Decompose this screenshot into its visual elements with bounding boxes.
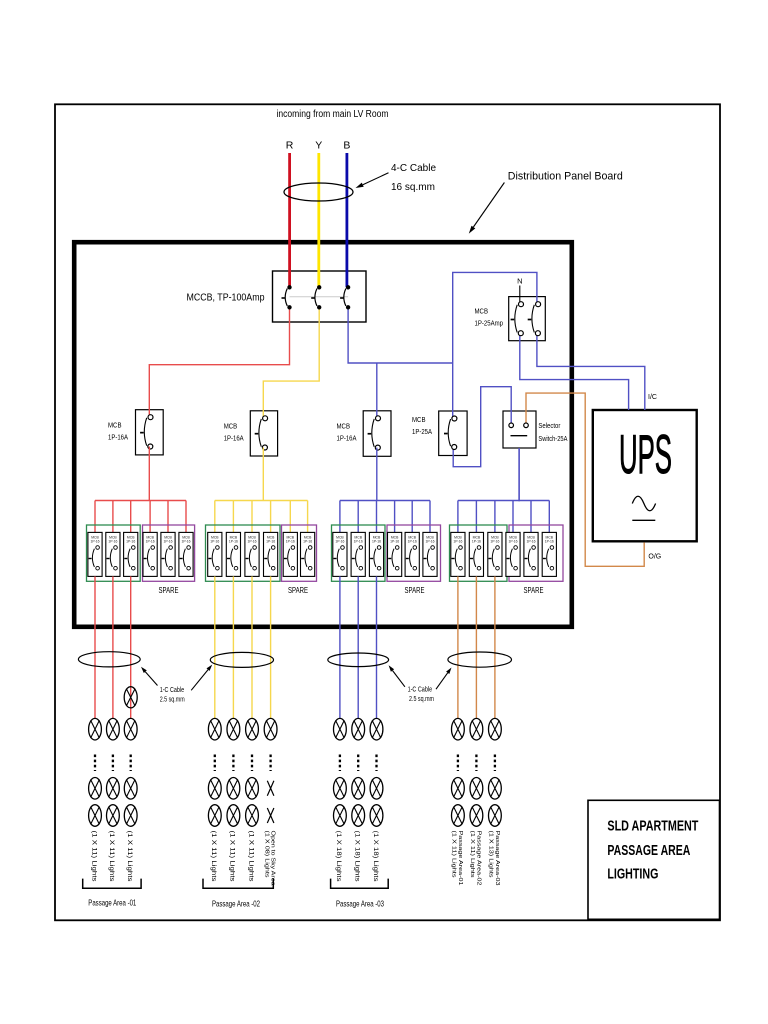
lamp G4-C3-R2 xyxy=(489,778,502,800)
wire drop G3-1 xyxy=(339,501,341,535)
wire drop G3-2 xyxy=(357,501,359,535)
svg-text:1P-16: 1P-16 xyxy=(408,540,417,544)
svg-text:I/C: I/C xyxy=(648,394,657,401)
breaker G4-6 xyxy=(542,532,556,576)
wire drop G3-4 xyxy=(394,501,396,535)
svg-text:1-C Cable: 1-C Cable xyxy=(160,687,185,694)
N stub wire xyxy=(519,286,521,305)
svg-text:SPARE: SPARE xyxy=(288,586,308,595)
svg-text:N: N xyxy=(517,277,522,286)
panel board enclosure xyxy=(74,242,572,627)
breaker G1-6 xyxy=(179,532,193,576)
4-C cable bundle ellipse xyxy=(284,183,353,201)
lamp G4-C3-R1 xyxy=(489,718,502,740)
svg-text:1P-16: 1P-16 xyxy=(163,540,172,544)
breaker G1-4 xyxy=(143,532,157,576)
lamp G1-C1-R2 xyxy=(89,778,102,800)
breaker G3-1 xyxy=(333,532,347,576)
breaker G2-1 xyxy=(208,532,222,576)
svg-text:(1 X 18) Lights: (1 X 18) Lights xyxy=(335,831,342,883)
lamp G1-C2-R2 xyxy=(107,778,120,800)
wire G2 circuit 3 to lamps xyxy=(251,576,253,718)
wire R MCCB to MCB U2 xyxy=(149,307,289,417)
lamp G2-C1-R2 xyxy=(208,778,221,800)
wire drop G2-6 xyxy=(307,501,309,535)
svg-text:Y: Y xyxy=(315,140,322,152)
wire drop G4-6 xyxy=(548,501,550,535)
lamp G4-C2-R1 xyxy=(470,718,483,740)
svg-text:MCB: MCB xyxy=(108,421,122,430)
lamp G1-C3-top xyxy=(124,687,137,708)
svg-text:1P-25Amp: 1P-25Amp xyxy=(475,319,504,328)
continuation dots G4-C2 xyxy=(475,755,477,772)
wire B N-loop to MCB U6 xyxy=(453,272,537,363)
wire B incoming xyxy=(345,153,348,287)
U6 right pole symbol xyxy=(536,302,541,307)
U2 breaker symbol xyxy=(148,415,153,420)
lamp G4-C2-R2 xyxy=(470,778,483,800)
lamp G4-C1-R2 xyxy=(452,778,465,800)
lamp G3-C1-R3 xyxy=(334,805,347,827)
svg-text:1P-16: 1P-16 xyxy=(354,540,363,544)
breaker G2-3 xyxy=(245,532,259,576)
bus G1 xyxy=(95,500,186,502)
group G4 spare enclosure xyxy=(509,525,563,581)
svg-text:Switch-25A: Switch-25A xyxy=(538,434,567,443)
lamp G2-C2-R1 xyxy=(227,718,240,740)
svg-text:(1 X 11) Lights: (1 X 11) Lights xyxy=(90,831,97,883)
svg-text:Passage Area-01: Passage Area-01 xyxy=(457,831,463,886)
arrow to ellipse 4 xyxy=(436,673,448,689)
svg-text:MCB: MCB xyxy=(224,422,238,431)
svg-text:MCB: MCB xyxy=(412,415,426,424)
wire drop G4-3 xyxy=(494,501,496,535)
wire G2 circuit 2 to lamps xyxy=(232,576,234,718)
continuation dots G2-C3 xyxy=(251,755,253,772)
svg-text:Passage Area -03: Passage Area -03 xyxy=(336,900,384,909)
breaker G4-4 xyxy=(506,532,520,576)
breaker G3-3 xyxy=(369,532,383,576)
svg-text:Selector: Selector xyxy=(538,421,560,430)
lamp G3-C1-R2 xyxy=(334,778,347,800)
selector terminal right xyxy=(524,423,529,428)
svg-text:LIGHTING: LIGHTING xyxy=(607,867,658,883)
MCCB pole B xyxy=(346,286,349,289)
breaker G1-5 xyxy=(161,532,175,576)
svg-text:1P-16: 1P-16 xyxy=(90,540,99,544)
lamp G3-C3-R2 xyxy=(370,778,383,800)
wire G3 circuit 1 to lamps xyxy=(339,576,341,718)
breaker G3-2 xyxy=(351,532,365,576)
svg-text:MCB: MCB xyxy=(475,307,489,316)
wire drop G2-3 xyxy=(251,501,253,535)
svg-text:1P-16: 1P-16 xyxy=(146,540,155,544)
wire drop G3-6 xyxy=(429,501,431,535)
MCCB pole Y xyxy=(318,286,321,289)
svg-text:2.5 sq.mm: 2.5 sq.mm xyxy=(160,697,185,704)
UPS sine symbol xyxy=(632,496,655,511)
wire selector output xyxy=(518,448,520,501)
wire Y MCCB to MCB U3 xyxy=(263,307,319,418)
svg-text:1P-16: 1P-16 xyxy=(508,540,517,544)
wire G3 circuit 2 to lamps xyxy=(357,576,359,718)
arrow to ellipse 2 xyxy=(191,670,208,691)
MCCB TP-100Amp box xyxy=(273,271,367,322)
wire drop G2-5 xyxy=(289,501,291,535)
svg-text:SPARE: SPARE xyxy=(159,586,179,595)
bus G3 xyxy=(340,500,430,502)
svg-text:1P-16A: 1P-16A xyxy=(337,434,357,443)
wire drop G2-2 xyxy=(232,501,234,535)
wire drop G4-4 xyxy=(512,501,514,535)
wire G4 circuit 2 to lamps xyxy=(475,576,477,718)
continuation dots G1-C2 xyxy=(112,755,114,772)
svg-text:Passage Area-02: Passage Area-02 xyxy=(475,831,481,886)
breaker G3-5 xyxy=(405,532,419,576)
wire R incoming xyxy=(288,153,291,287)
breaker G2-5 xyxy=(283,532,297,576)
wire drop G3-3 xyxy=(376,501,378,535)
1-C cable ellipse group2 xyxy=(210,652,273,667)
arrow to ellipse 1 xyxy=(145,672,157,686)
wire B drop to MCB U4 xyxy=(376,363,378,418)
svg-text:(1 X 11) Lights: (1 X 11) Lights xyxy=(451,831,457,878)
lamp G4-C1-R3 xyxy=(452,805,465,827)
continuation dots G3-C1 xyxy=(339,755,341,772)
lamp G1-C2-R1 xyxy=(107,718,120,740)
lamp G2-C4-R1 xyxy=(264,718,277,740)
svg-text:B: B xyxy=(343,140,350,152)
wire drop G1-6 xyxy=(185,501,187,535)
svg-text:1P-16A: 1P-16A xyxy=(108,433,128,442)
MCB U2 1P-16A box xyxy=(136,410,164,455)
lamp G4-C3-R3 xyxy=(489,805,502,827)
svg-text:1P-16: 1P-16 xyxy=(286,540,295,544)
wire drop G1-3 xyxy=(130,501,132,535)
wire drop G1-2 xyxy=(112,501,114,535)
wire G1 circuit 3 to lamps xyxy=(130,576,132,718)
wire feed G1 xyxy=(148,447,150,501)
svg-text:MCB: MCB xyxy=(337,422,351,431)
U5 breaker symbol xyxy=(452,416,457,421)
svg-text:1P-16: 1P-16 xyxy=(545,540,554,544)
X mark G2-C4-R2 xyxy=(267,781,274,796)
breaker G1-3 xyxy=(124,532,138,576)
svg-text:SPARE: SPARE xyxy=(524,586,544,595)
group G1 active enclosure xyxy=(87,525,141,581)
svg-text:1P-16: 1P-16 xyxy=(126,540,135,544)
svg-text:1P-16: 1P-16 xyxy=(247,540,256,544)
svg-text:1P-25A: 1P-25A xyxy=(412,427,432,436)
svg-text:PASSAGE AREA: PASSAGE AREA xyxy=(607,843,690,859)
svg-text:4-C Cable: 4-C Cable xyxy=(391,163,436,174)
lamp G3-C2-R3 xyxy=(352,805,365,827)
svg-text:(1 X 11) Lights: (1 X 11) Lights xyxy=(126,831,133,883)
bracket area1 xyxy=(83,879,141,889)
1-C cable ellipse group1 xyxy=(78,652,140,667)
wire G2 circuit 4 to lamps xyxy=(270,576,272,718)
svg-text:(1 X 11) Lights: (1 X 11) Lights xyxy=(247,831,254,883)
svg-text:(1 X 13) Lights: (1 X 13) Lights xyxy=(488,831,494,878)
MCB U6 1P-25Amp box xyxy=(509,297,546,341)
breaker G4-1 xyxy=(451,532,465,576)
lamp G4-C1-R1 xyxy=(452,718,465,740)
MCB U4 1P-16A box xyxy=(363,411,391,457)
wire drop G1-1 xyxy=(94,501,96,535)
svg-text:1P-16: 1P-16 xyxy=(303,540,312,544)
wire Y incoming xyxy=(317,153,320,287)
lamp G4-C2-R3 xyxy=(470,805,483,827)
svg-text:1P-16: 1P-16 xyxy=(526,540,535,544)
svg-text:UPS: UPS xyxy=(619,423,672,485)
svg-text:SPARE: SPARE xyxy=(405,586,425,595)
group G3 active enclosure xyxy=(332,525,386,581)
bracket area3 xyxy=(331,879,389,889)
continuation dots G1-C3 xyxy=(130,755,132,772)
UPS sine underline xyxy=(632,519,655,521)
breaker G4-2 xyxy=(469,532,483,576)
wire G2 circuit 1 to lamps xyxy=(214,576,216,718)
svg-text:(1 X 11) Lights: (1 X 11) Lights xyxy=(229,831,236,883)
breaker G2-4 xyxy=(264,532,278,576)
U4 breaker symbol xyxy=(376,416,381,421)
wire B MCCB to bus xyxy=(348,307,453,363)
breaker G1-2 xyxy=(106,532,120,576)
bus G4 xyxy=(458,500,549,502)
wire U5 to selector input xyxy=(453,387,511,467)
leader arrow to panel board xyxy=(473,183,504,228)
svg-text:Open to Sky Area: Open to Sky Area xyxy=(270,831,276,887)
wire U6 left pole to UPS I/C xyxy=(520,333,629,410)
wire G1 circuit 2 to lamps xyxy=(112,576,114,718)
wire feed G3 xyxy=(376,448,378,501)
lamp G3-C2-R1 xyxy=(352,718,365,740)
svg-text:Passage Area -01: Passage Area -01 xyxy=(88,899,136,908)
svg-text:Distribution Panel Board: Distribution Panel Board xyxy=(508,171,623,183)
svg-text:(1 X 11) Lights: (1 X 11) Lights xyxy=(469,831,475,878)
wire feed G2 xyxy=(262,448,264,501)
title block box xyxy=(588,800,720,919)
X mark G2-C4-R3 xyxy=(267,808,274,823)
U3 breaker symbol xyxy=(263,416,268,421)
breaker G2-6 xyxy=(301,532,315,576)
wire G1 circuit 1 to lamps xyxy=(94,576,96,718)
group G2 active enclosure xyxy=(206,525,281,581)
group G1 spare enclosure xyxy=(143,525,195,581)
continuation dots G3-C3 xyxy=(375,755,377,772)
bus G2 xyxy=(215,500,308,502)
lamp G1-C3-R1 xyxy=(124,718,137,740)
svg-text:Passage Area-03: Passage Area-03 xyxy=(494,831,500,886)
lamp G1-C2-R3 xyxy=(107,805,120,827)
lamp G2-C3-R2 xyxy=(246,778,259,800)
svg-text:1P-16: 1P-16 xyxy=(229,540,238,544)
continuation dots G3-C2 xyxy=(357,755,359,772)
svg-text:1P-16: 1P-16 xyxy=(490,540,499,544)
U6 left pole symbol xyxy=(519,302,524,307)
breaker G4-5 xyxy=(524,532,538,576)
group G2 spare enclosure xyxy=(282,525,317,581)
wire drop G4-1 xyxy=(457,501,459,535)
bracket area2 xyxy=(203,879,273,889)
wire drop G2-1 xyxy=(214,501,216,535)
wire U6 right pole to UPS I/C xyxy=(537,333,645,410)
1-C cable ellipse group3 xyxy=(328,653,389,667)
wire drop G2-4 xyxy=(270,501,272,535)
UPS box xyxy=(593,410,697,541)
lamp G1-C1-R3 xyxy=(89,805,102,827)
breaker G1-1 xyxy=(88,532,102,576)
svg-text:1P-16: 1P-16 xyxy=(472,540,481,544)
svg-text:1P-16: 1P-16 xyxy=(453,540,462,544)
svg-text:(1 X 18) Lights: (1 X 18) Lights xyxy=(372,831,379,883)
svg-text:R: R xyxy=(286,140,294,152)
svg-text:(1 X 18) Lights: (1 X 18) Lights xyxy=(354,831,361,883)
wire B drop to MCB U5 xyxy=(452,363,454,419)
lamp G2-C2-R3 xyxy=(227,805,240,827)
svg-text:incoming from main LV Room: incoming from main LV Room xyxy=(277,109,389,120)
lamp G3-C1-R1 xyxy=(334,718,347,740)
svg-text:(1 X 11) Lights: (1 X 11) Lights xyxy=(210,831,217,883)
continuation dots G2-C1 xyxy=(214,755,216,772)
selector switch box xyxy=(503,411,536,448)
lamp G1-C3-R2 xyxy=(124,778,137,800)
svg-text:16 sq.mm: 16 sq.mm xyxy=(391,182,435,193)
lamp G2-C1-R1 xyxy=(208,718,221,740)
svg-text:1P-16: 1P-16 xyxy=(372,540,381,544)
svg-text:1P-16: 1P-16 xyxy=(210,540,219,544)
svg-text:MCCB, TP-100Amp: MCCB, TP-100Amp xyxy=(187,293,265,304)
wire orange UPS O/G to selector xyxy=(526,393,644,566)
svg-text:1P-16: 1P-16 xyxy=(390,540,399,544)
MCCB pole R xyxy=(288,286,291,289)
svg-text:1P-16: 1P-16 xyxy=(181,540,190,544)
breaker G3-4 xyxy=(388,532,402,576)
svg-text:Passage Area -02: Passage Area -02 xyxy=(212,900,260,909)
lamp G1-C1-R1 xyxy=(89,718,102,740)
group G4 active enclosure xyxy=(450,525,508,581)
svg-text:1P-16: 1P-16 xyxy=(266,540,275,544)
wire drop G1-4 xyxy=(149,501,151,535)
lamp G3-C2-R2 xyxy=(352,778,365,800)
breaker G4-3 xyxy=(488,532,502,576)
svg-text:1P-16: 1P-16 xyxy=(335,540,344,544)
1-C cable ellipse group4 xyxy=(448,652,512,667)
svg-text:(1 X 11) Lights: (1 X 11) Lights xyxy=(108,831,115,883)
lamp G2-C2-R2 xyxy=(227,778,240,800)
breaker G3-6 xyxy=(423,532,437,576)
continuation dots G4-C3 xyxy=(494,755,496,772)
wire G4 circuit 1 to lamps xyxy=(457,576,459,718)
svg-text:O/G: O/G xyxy=(648,554,661,561)
wire feed G4 xyxy=(518,448,520,501)
svg-text:1P-16A: 1P-16A xyxy=(224,434,244,443)
selector bar xyxy=(511,435,528,437)
outer drawing border xyxy=(55,104,720,920)
MCCB pole link xyxy=(290,296,349,298)
wire drop G3-5 xyxy=(411,501,413,535)
lamp G2-C1-R3 xyxy=(208,805,221,827)
continuation dots G2-C4 xyxy=(269,755,271,772)
wire drop G1-5 xyxy=(167,501,169,535)
svg-text:(1 X 08) Lights: (1 X 08) Lights xyxy=(263,831,269,878)
wire G3 circuit 3 to lamps xyxy=(376,576,378,718)
lamp G2-C3-R1 xyxy=(246,718,259,740)
arrow to ellipse 3 xyxy=(393,671,405,687)
svg-text:1P-16: 1P-16 xyxy=(425,540,434,544)
lamp G3-C3-R3 xyxy=(370,805,383,827)
group G3 spare enclosure xyxy=(387,525,441,581)
continuation dots G2-C2 xyxy=(232,755,234,772)
continuation dots G1-C1 xyxy=(94,755,96,772)
MCB U5 1P-25A box xyxy=(439,411,467,456)
lamp G1-C3-R3 xyxy=(124,805,137,827)
wire drop G4-2 xyxy=(475,501,477,535)
selector terminal left xyxy=(509,423,514,428)
lamp G2-C3-R3 xyxy=(246,805,259,827)
breaker G2-2 xyxy=(226,532,240,576)
svg-text:SLD APARTMENT: SLD APARTMENT xyxy=(607,819,698,835)
wire G4 circuit 3 to lamps xyxy=(494,576,496,718)
wire drop G4-5 xyxy=(530,501,532,535)
svg-text:2.5 sq.mm: 2.5 sq.mm xyxy=(409,696,434,703)
lamp G3-C3-R1 xyxy=(370,718,383,740)
MCB U3 1P-16A box xyxy=(250,411,277,456)
continuation dots G4-C1 xyxy=(457,755,459,772)
leader arrow to 4-C cable ellipse xyxy=(363,173,389,185)
svg-text:1-C Cable: 1-C Cable xyxy=(408,687,433,694)
svg-text:1P-16: 1P-16 xyxy=(108,540,117,544)
